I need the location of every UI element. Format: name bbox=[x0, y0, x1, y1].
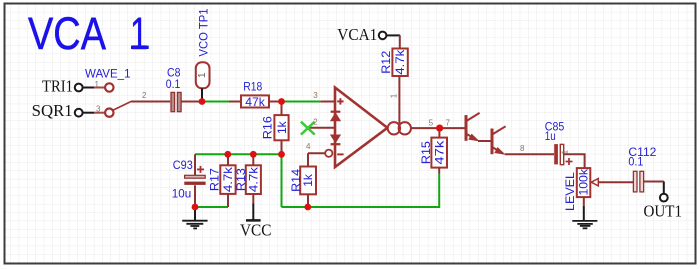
svg-text:10u: 10u bbox=[172, 187, 191, 201]
svg-text:C93: C93 bbox=[173, 158, 193, 172]
svg-text:WAVE_1: WAVE_1 bbox=[85, 67, 131, 81]
svg-text:1k: 1k bbox=[301, 173, 315, 187]
svg-text:LEVEL: LEVEL bbox=[563, 172, 577, 211]
svg-text:R14: R14 bbox=[289, 169, 303, 192]
svg-text:R12: R12 bbox=[379, 50, 393, 73]
svg-text:2: 2 bbox=[142, 91, 147, 100]
svg-text:0.1: 0.1 bbox=[628, 155, 643, 169]
svg-text:0.1: 0.1 bbox=[166, 77, 181, 91]
svg-text:4.7k: 4.7k bbox=[393, 49, 407, 75]
svg-text:3: 3 bbox=[96, 105, 101, 114]
svg-text:1u: 1u bbox=[545, 129, 556, 143]
svg-text:47k: 47k bbox=[432, 139, 446, 164]
svg-text:1: 1 bbox=[197, 72, 208, 78]
svg-text:SQR1: SQR1 bbox=[32, 101, 73, 120]
svg-text:R16: R16 bbox=[261, 116, 275, 139]
svg-text:4.7k: 4.7k bbox=[221, 166, 235, 192]
svg-text:4.7k: 4.7k bbox=[246, 166, 260, 192]
svg-text:OUT1: OUT1 bbox=[644, 202, 683, 221]
svg-text:R17: R17 bbox=[208, 168, 222, 191]
svg-text:VCC: VCC bbox=[240, 221, 272, 240]
svg-text:47k: 47k bbox=[245, 95, 265, 109]
svg-text:VCA1: VCA1 bbox=[28, 8, 148, 59]
svg-text:5: 5 bbox=[429, 118, 434, 127]
svg-text:R15: R15 bbox=[419, 141, 433, 164]
svg-text:8: 8 bbox=[520, 144, 525, 153]
svg-text:1k: 1k bbox=[275, 120, 289, 134]
svg-text:7: 7 bbox=[446, 118, 451, 127]
svg-text:1: 1 bbox=[95, 80, 100, 89]
svg-text:4: 4 bbox=[306, 142, 311, 151]
svg-text:VCO TP1: VCO TP1 bbox=[196, 8, 210, 56]
svg-text:2: 2 bbox=[313, 118, 318, 127]
svg-text:100k: 100k bbox=[577, 168, 591, 196]
svg-text:1: 1 bbox=[390, 93, 399, 98]
svg-text:3: 3 bbox=[313, 91, 318, 100]
svg-text:VCA1: VCA1 bbox=[337, 25, 377, 44]
svg-text:TRI1: TRI1 bbox=[42, 77, 73, 96]
svg-text:R13: R13 bbox=[234, 168, 248, 191]
svg-text:R18: R18 bbox=[243, 80, 262, 94]
